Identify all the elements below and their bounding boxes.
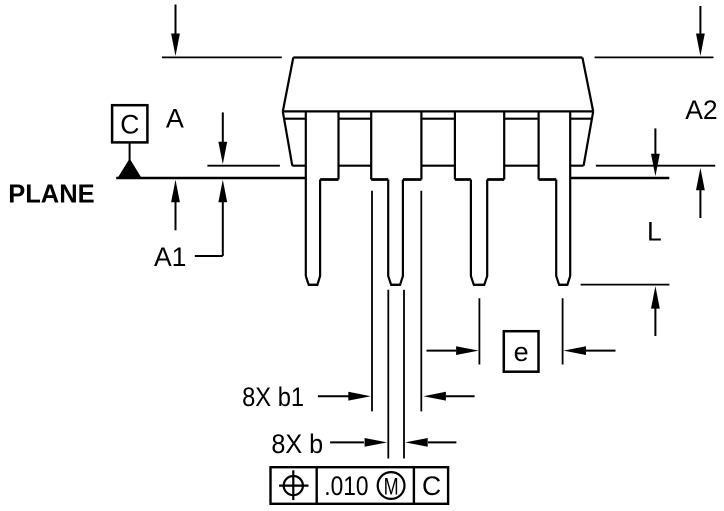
seating plane line left segment bbox=[116, 177, 306, 180]
package body top edge bbox=[293, 56, 582, 58]
package body right upper slant edge bbox=[582, 58, 593, 112]
lead 3 shoulder bbox=[455, 111, 504, 179]
lead 1 shoulder bbox=[306, 111, 339, 276]
svg-text:A2: A2 bbox=[685, 95, 717, 125]
datum C filled triangle bbox=[117, 159, 142, 179]
svg-text:PLANE: PLANE bbox=[8, 180, 94, 208]
lead 3 narrow portion and tip bbox=[471, 180, 487, 285]
package body left lower slant edge bbox=[283, 111, 293, 165]
b1 extension lines bbox=[372, 191, 421, 412]
dimension b1 right arrow (left-pointing) bbox=[446, 395, 475, 397]
datum C stem line bbox=[129, 142, 131, 161]
body bottom extension line left (A1) bbox=[207, 165, 280, 167]
M circle (MMC modifier) bbox=[378, 472, 405, 499]
dimension b left arrow (right-pointing) bbox=[330, 441, 364, 443]
svg-text:M: M bbox=[384, 473, 399, 500]
lead tip extension line right (L) bbox=[581, 284, 670, 286]
dimension A1 top arrow (down) bbox=[222, 112, 224, 142]
dimension e left arrow (right-pointing) bbox=[427, 350, 457, 352]
dimension e right arrow (left-pointing) bbox=[586, 350, 616, 352]
lead 1 narrow portion and tip bbox=[306, 180, 320, 285]
svg-text:e: e bbox=[514, 337, 529, 367]
body bottom extension line right (A2) bbox=[596, 165, 715, 167]
dimension A2 top arrow (down) bbox=[699, 6, 701, 36]
svg-text:C: C bbox=[422, 471, 441, 501]
svg-text:.010: .010 bbox=[324, 471, 368, 501]
lead 2 shoulder bbox=[371, 111, 421, 179]
lead 2 steps at seating plane bbox=[371, 178, 421, 181]
lead 4 step at seating plane bbox=[539, 178, 557, 181]
lead 3 steps at seating plane bbox=[455, 178, 504, 181]
lead 2 narrow portion and tip bbox=[388, 180, 403, 285]
dimension L bottom arrow (up) bbox=[654, 308, 656, 336]
lead 4 narrow portion and tip bbox=[556, 180, 570, 285]
dimension A2 bottom arrow (up) bbox=[699, 190, 701, 218]
dimension b right arrow (left-pointing) bbox=[428, 441, 456, 443]
lead 4 shoulder bbox=[539, 111, 571, 276]
body ledge line segments bbox=[284, 118, 592, 120]
dimension A1 leader line bbox=[195, 255, 223, 257]
svg-text:8X b1: 8X b1 bbox=[242, 382, 304, 412]
feature control frame box bbox=[271, 467, 449, 504]
top extension line left bbox=[162, 56, 282, 58]
dimension A bottom arrow (up) bbox=[175, 200, 177, 230]
package body right lower slant edge bbox=[584, 111, 594, 165]
body bottom edge segments bbox=[292, 165, 583, 167]
package body left upper slant edge bbox=[283, 58, 294, 112]
dimension L top arrow (down) bbox=[654, 128, 656, 155]
top extension line right bbox=[595, 56, 714, 58]
datum C symbol box bbox=[112, 105, 147, 161]
svg-text:L: L bbox=[647, 217, 662, 247]
e dimension box bbox=[504, 331, 539, 372]
svg-text:8X b: 8X b bbox=[271, 429, 323, 459]
e extension lines bbox=[479, 298, 562, 364]
dimension A1 bottom arrow (up) bbox=[222, 202, 224, 256]
dimension b1 left arrow (right-pointing) bbox=[318, 395, 350, 397]
svg-text:C: C bbox=[120, 110, 139, 140]
seating plane line right segment bbox=[570, 177, 670, 180]
b extension lines bbox=[388, 290, 404, 459]
package body parting line bbox=[283, 110, 593, 112]
lead 1 step at seating plane bbox=[320, 178, 338, 181]
dimension A top arrow (down) bbox=[171, 5, 705, 447]
true position symbol bbox=[284, 476, 303, 495]
svg-text:A1: A1 bbox=[154, 242, 186, 272]
svg-text:A: A bbox=[166, 103, 184, 133]
